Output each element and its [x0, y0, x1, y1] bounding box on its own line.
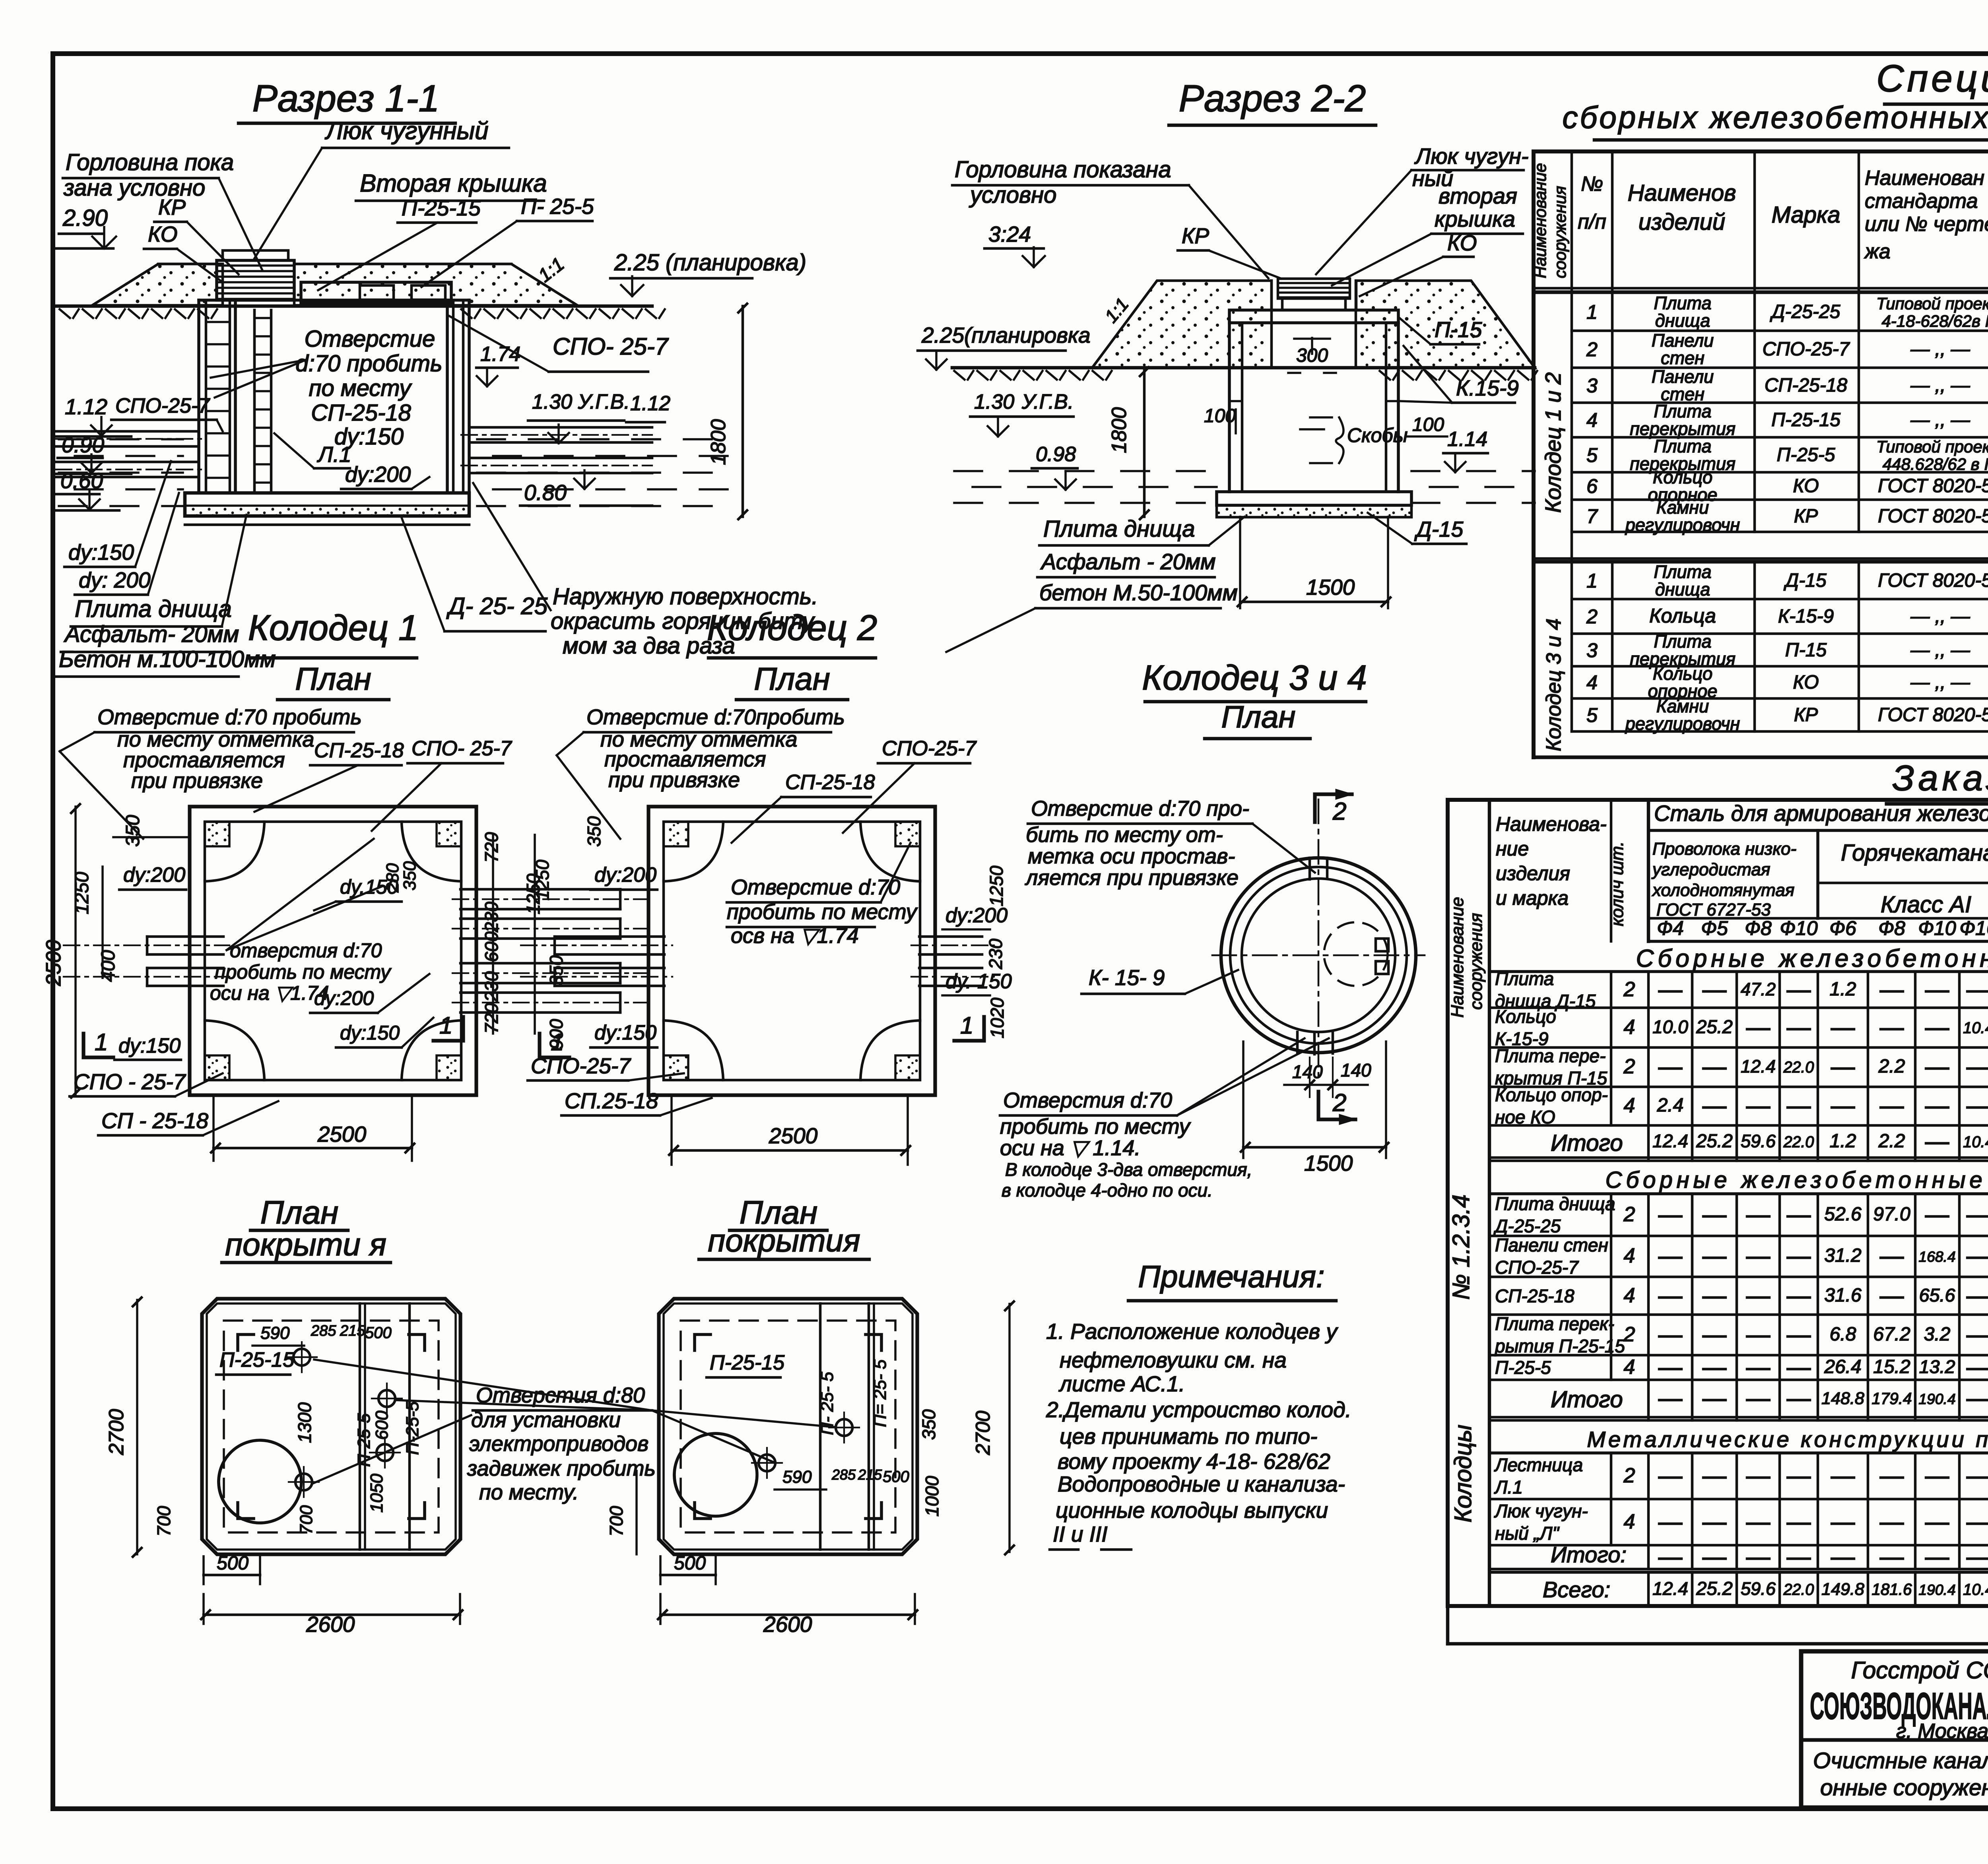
svg-text:Отверстие d:70: Отверстие d:70 [731, 875, 900, 899]
svg-text:7: 7 [1586, 505, 1598, 528]
svg-text:П-25-15: П-25-15 [710, 1351, 785, 1374]
svg-text:140: 140 [1292, 1061, 1323, 1082]
svg-text:2.25(планировка: 2.25(планировка [921, 323, 1091, 347]
svg-text:65.6: 65.6 [1919, 1285, 1955, 1305]
svg-text:1: 1 [1586, 301, 1598, 323]
svg-text:Разрез 2-2: Разрез 2-2 [1179, 78, 1366, 120]
svg-text:1.12: 1.12 [65, 394, 107, 419]
svg-text:цев принимать по типо-: цев принимать по типо- [1060, 1424, 1317, 1449]
svg-text:1020: 1020 [987, 997, 1008, 1038]
svg-text:П-25-5: П-25-5 [1777, 444, 1835, 466]
svg-text:148.8: 148.8 [1821, 1389, 1864, 1408]
svg-text:План: План [295, 661, 371, 696]
svg-text:1: 1 [960, 1012, 973, 1039]
svg-text:Люк чугун-: Люк чугун- [1494, 1501, 1588, 1521]
svg-text:II и III: II и III [1053, 1522, 1108, 1546]
svg-text:Наименование: Наименование [1448, 897, 1467, 1018]
svg-text:Типовой проект: Типовой проект [1876, 437, 1988, 456]
svg-text:Колодец 3 и 4: Колодец 3 и 4 [1542, 619, 1565, 751]
svg-text:П-15: П-15 [1785, 640, 1827, 661]
svg-text:1.2: 1.2 [1830, 979, 1856, 1000]
svg-text:План: План [260, 1195, 338, 1231]
svg-text:1: 1 [95, 1029, 108, 1055]
svg-text:2.25 (планировка): 2.25 (планировка) [614, 250, 806, 275]
svg-text:25.2: 25.2 [1696, 1130, 1733, 1151]
svg-text:10.4: 10.4 [1963, 1133, 1988, 1151]
svg-text:КР: КР [158, 195, 186, 219]
svg-text:5: 5 [1586, 704, 1598, 726]
svg-text:448.628/62 в III: 448.628/62 в III [1883, 455, 1988, 473]
svg-text:Примечания:: Примечания: [1138, 1259, 1324, 1294]
svg-text:25.2: 25.2 [1696, 1578, 1733, 1599]
svg-text:Наименов: Наименов [1628, 180, 1736, 206]
svg-text:метка оси простав-: метка оси простав- [1028, 844, 1235, 868]
svg-text:Вторая крышка: Вторая крышка [360, 170, 547, 197]
svg-text:215: 215 [340, 1323, 365, 1339]
svg-text:оси на ▽ 1.14.: оси на ▽ 1.14. [1000, 1136, 1140, 1160]
svg-text:2500: 2500 [42, 940, 65, 986]
svg-text:5: 5 [1586, 444, 1598, 466]
svg-text:dy:150: dy:150 [118, 1034, 181, 1057]
svg-text:Д-15: Д-15 [1414, 517, 1464, 541]
svg-text:СП-25-18: СП-25-18 [311, 400, 411, 426]
svg-text:0.80: 0.80 [524, 480, 567, 505]
svg-text:КО: КО [1793, 672, 1819, 693]
svg-text:бить по месту от-: бить по месту от- [1026, 823, 1223, 847]
svg-text:285: 285 [831, 1466, 856, 1483]
svg-text:ние: ние [1496, 838, 1529, 860]
svg-text:350: 350 [122, 815, 144, 847]
svg-text:СПО-25-7: СПО-25-7 [882, 737, 977, 760]
svg-text:67.2: 67.2 [1873, 1324, 1910, 1345]
svg-text:№ 1.2.3.4: № 1.2.3.4 [1448, 1195, 1474, 1300]
svg-text:ГОСТ 8020-56: ГОСТ 8020-56 [1878, 704, 1988, 725]
svg-text:dy:150: dy:150 [340, 1022, 400, 1044]
svg-text:Л.1: Л.1 [1494, 1477, 1523, 1497]
svg-text:13.2: 13.2 [1919, 1356, 1955, 1377]
svg-text:Скобы: Скобы [1347, 424, 1408, 446]
svg-text:2.90: 2.90 [62, 205, 108, 231]
svg-text:Итого:: Итого: [1551, 1542, 1627, 1567]
svg-text:3.2: 3.2 [1924, 1324, 1951, 1345]
svg-text:стандарта: стандарта [1865, 190, 1978, 213]
svg-text:1800: 1800 [1108, 407, 1131, 453]
svg-text:онные сооружения: онные сооружения [1820, 1775, 1988, 1800]
svg-text:dy:150: dy:150 [68, 540, 134, 564]
svg-text:600: 600 [372, 1410, 392, 1440]
svg-text:Ф6: Ф6 [1829, 917, 1856, 939]
svg-text:сооружения: сооружения [1551, 186, 1569, 278]
svg-text:П-25-15: П-25-15 [1771, 409, 1840, 431]
svg-text:СП-25-18: СП-25-18 [1495, 1286, 1574, 1306]
svg-text:План: План [1221, 699, 1296, 734]
svg-text:СПО- 25-7: СПО- 25-7 [553, 333, 669, 360]
svg-text:500: 500 [365, 1324, 392, 1342]
svg-text:Наружную поверхность.: Наружную поверхность. [553, 584, 818, 609]
svg-text:1. Расположение колодцев у: 1. Расположение колодцев у [1046, 1319, 1338, 1344]
svg-text:3:24: 3:24 [988, 222, 1031, 246]
svg-text:Всего:: Всего: [1543, 1577, 1610, 1602]
svg-text:31.6: 31.6 [1824, 1285, 1862, 1306]
svg-text:190.4: 190.4 [1918, 1391, 1955, 1407]
svg-text:181.6: 181.6 [1872, 1580, 1912, 1598]
svg-text:СП-25-18: СП-25-18 [314, 739, 404, 762]
svg-text:1.14: 1.14 [1447, 428, 1487, 451]
svg-text:сооружения: сооружения [1466, 913, 1486, 1010]
svg-text:по месту отметка: по месту отметка [117, 727, 314, 751]
svg-text:П-25-15: П-25-15 [402, 196, 481, 220]
svg-text:КР: КР [1182, 223, 1209, 248]
svg-text:1250: 1250 [523, 873, 544, 914]
svg-text:500: 500 [674, 1553, 706, 1574]
svg-text:2600: 2600 [763, 1612, 812, 1637]
svg-text:0.98: 0.98 [1036, 443, 1076, 466]
svg-text:2: 2 [1623, 1464, 1635, 1487]
svg-text:1: 1 [1586, 570, 1598, 592]
svg-text:4: 4 [1624, 1094, 1635, 1117]
svg-text:1: 1 [551, 1029, 564, 1055]
svg-text:52.6: 52.6 [1824, 1204, 1862, 1225]
svg-text:350: 350 [546, 955, 567, 986]
svg-text:1000: 1000 [922, 1476, 942, 1517]
svg-text:Заказ стали: Заказ стали [1892, 758, 1988, 798]
svg-text:10.4: 10.4 [1963, 1019, 1988, 1037]
svg-text:рытия П-25-15: рытия П-25-15 [1494, 1336, 1625, 1356]
svg-text:нефтеловушки см. на: нефтеловушки см. на [1060, 1348, 1287, 1372]
svg-text:1500: 1500 [1304, 1151, 1353, 1175]
svg-text:ГОСТ 8020-56: ГОСТ 8020-56 [1878, 506, 1988, 527]
svg-text:4: 4 [1624, 1016, 1635, 1039]
svg-text:Колодец 1 и 2: Колодец 1 и 2 [1541, 372, 1565, 513]
svg-text:350: 350 [584, 816, 604, 847]
svg-text:2500: 2500 [769, 1123, 818, 1148]
svg-text:К-15-9: К-15-9 [1778, 606, 1834, 627]
svg-text:2: 2 [1623, 1055, 1635, 1078]
svg-text:1.2: 1.2 [1830, 1131, 1856, 1152]
svg-text:Типовой проект: Типовой проект [1876, 294, 1988, 313]
svg-text:230: 230 [481, 902, 502, 933]
svg-text:К.15-9: К.15-9 [1456, 376, 1519, 400]
svg-text:Ф5: Ф5 [1701, 917, 1728, 939]
svg-text:Бетон м.100-100мм: Бетон м.100-100мм [59, 646, 276, 672]
svg-text:ГОСТ 8020-56: ГОСТ 8020-56 [1878, 570, 1988, 591]
svg-text:Сборные железобетонные элеме: Сборные железобетонные элементы по ГОСТ … [1636, 945, 1988, 972]
svg-text:2.2: 2.2 [1878, 1131, 1905, 1152]
svg-text:В колодце 3-два отверстия,: В колодце 3-два отверстия, [1005, 1159, 1252, 1180]
svg-text:Проволока низко-: Проволока низко- [1652, 839, 1796, 859]
svg-text:Отверстие d:70 про-: Отверстие d:70 про- [1031, 797, 1249, 820]
svg-text:Металлические конструкции по: Металлические конструкции по т.п. 4-18-6… [1587, 1427, 1988, 1452]
svg-text:dy:200: dy:200 [123, 863, 185, 886]
svg-text:100: 100 [1412, 414, 1444, 435]
svg-text:1.30: 1.30 [974, 390, 1014, 413]
svg-text:2.2: 2.2 [1878, 1056, 1905, 1077]
svg-text:500: 500 [883, 1468, 909, 1486]
svg-text:проставляется: проставляется [123, 748, 285, 772]
svg-text:и марка: и марка [1496, 887, 1569, 909]
svg-text:К- 15- 9: К- 15- 9 [1089, 965, 1165, 990]
svg-text:Плита днища: Плита днища [75, 595, 232, 622]
svg-text:— ,, —: — ,, — [1910, 606, 1970, 627]
svg-text:Отверстие d:70 пробить: Отверстие d:70 пробить [97, 705, 362, 729]
svg-text:бетон М.50-100мм: бетон М.50-100мм [1039, 580, 1238, 605]
svg-text:пробить по месту: пробить по месту [727, 900, 918, 924]
svg-text:У.Г.В.: У.Г.В. [1021, 390, 1074, 413]
svg-text:в колодце 4-одно по оси.: в колодце 4-одно по оси. [1002, 1180, 1213, 1201]
svg-text:dy:200: dy:200 [945, 904, 1008, 927]
svg-text:электроприводов: электроприводов [469, 1432, 648, 1456]
svg-text:dy:200: dy:200 [594, 863, 656, 886]
svg-text:230: 230 [481, 971, 502, 1002]
svg-text:285: 285 [311, 1323, 336, 1339]
svg-text:углеродистая: углеродистая [1651, 860, 1770, 879]
svg-text:Плита перек-: Плита перек- [1495, 1313, 1614, 1334]
svg-text:2700: 2700 [972, 1411, 994, 1455]
svg-text:12.4: 12.4 [1652, 1578, 1688, 1599]
svg-text:1.74: 1.74 [480, 343, 520, 366]
svg-text:2700: 2700 [105, 1409, 128, 1455]
svg-text:П- 25-5: П- 25-5 [521, 194, 594, 219]
svg-text:покрытия: покрытия [708, 1223, 860, 1258]
svg-text:КО: КО [1793, 475, 1819, 497]
svg-text:Горячекатаная ГОСТ 5781-61: Горячекатаная ГОСТ 5781-61 [1841, 840, 1988, 866]
svg-text:Очистные канализаци-: Очистные канализаци- [1813, 1748, 1988, 1773]
svg-text:П-25-5: П-25-5 [403, 1401, 422, 1455]
svg-text:Спецификация: Спецификация [1876, 57, 1988, 100]
svg-text:№: № [1581, 173, 1603, 196]
svg-text:100: 100 [1204, 405, 1236, 427]
svg-text:г. Москва: г. Москва [1896, 1720, 1988, 1743]
svg-text:при привязке: при привязке [131, 769, 263, 793]
svg-text:Д-15: Д-15 [1783, 570, 1826, 591]
svg-text:вому проекту 4-18- 628/62: вому проекту 4-18- 628/62 [1058, 1449, 1330, 1474]
svg-text:жа: жа [1864, 240, 1891, 263]
svg-text:СПО-25-7: СПО-25-7 [1763, 339, 1850, 360]
svg-text:140: 140 [1341, 1060, 1371, 1080]
svg-text:пробить по месту: пробить по месту [215, 961, 392, 983]
svg-text:179.4: 179.4 [1872, 1389, 1912, 1408]
svg-text:— ,, —: — ,, — [1910, 339, 1970, 360]
svg-text:22.0: 22.0 [1783, 1133, 1814, 1151]
svg-text:590: 590 [782, 1467, 812, 1487]
svg-text:или № черте-: или № черте- [1865, 213, 1988, 236]
svg-text:Горловина пока: Горловина пока [66, 149, 234, 175]
svg-text:стен: стен [1661, 348, 1705, 368]
svg-text:2500: 2500 [317, 1122, 367, 1146]
svg-text:регулировочн: регулировочн [1625, 515, 1740, 535]
svg-text:Ф8: Ф8 [1878, 917, 1905, 939]
svg-text:П-25-5: П-25-5 [1495, 1357, 1551, 1378]
svg-text:6.8: 6.8 [1830, 1324, 1856, 1345]
svg-text:КО: КО [148, 222, 178, 246]
svg-text:230: 230 [985, 939, 1006, 970]
svg-text:Плита пере-: Плита пере- [1495, 1045, 1606, 1066]
svg-text:Марка: Марка [1771, 202, 1840, 228]
svg-text:крышка: крышка [1435, 206, 1515, 231]
svg-text:dy: 200: dy: 200 [79, 568, 151, 592]
svg-text:600: 600 [481, 931, 502, 962]
svg-text:Д-25-25: Д-25-25 [1770, 301, 1840, 322]
svg-text:Колодцы: Колодцы [1450, 1425, 1476, 1523]
svg-text:ГОСТ 6727-53: ГОСТ 6727-53 [1656, 900, 1771, 919]
svg-text:26.4: 26.4 [1824, 1356, 1861, 1377]
svg-text:4: 4 [1624, 1356, 1635, 1379]
svg-text:dy.150: dy.150 [340, 876, 398, 898]
svg-text:— ,, —: — ,, — [1910, 409, 1970, 431]
svg-text:СПО-25-7: СПО-25-7 [1495, 1257, 1579, 1278]
svg-text:4: 4 [1624, 1244, 1635, 1267]
svg-text:СПО- 25-7: СПО- 25-7 [412, 737, 513, 760]
svg-text:500: 500 [217, 1553, 248, 1574]
svg-text:47.2: 47.2 [1741, 979, 1776, 999]
svg-text:Асфальт- 20мм: Асфальт- 20мм [64, 621, 239, 647]
svg-text:dy:200: dy:200 [345, 462, 411, 487]
svg-text:Сталь для армирования железобе: Сталь для армирования железобетонных кон… [1654, 801, 1988, 826]
svg-text:350: 350 [918, 1409, 939, 1440]
svg-text:168.4: 168.4 [1918, 1248, 1955, 1265]
svg-text:Класс АI: Класс АI [1881, 892, 1971, 917]
svg-text:холоднотянутая: холоднотянутая [1652, 881, 1794, 900]
svg-text:Сборные железобетонные элеме: Сборные железобетонные элементы по т.п. … [1606, 1167, 1988, 1193]
svg-text:149.8: 149.8 [1821, 1580, 1864, 1599]
svg-text:План: План [754, 661, 830, 696]
svg-text:при привязке: при привязке [608, 768, 740, 792]
svg-text:Ф8: Ф8 [1745, 917, 1772, 939]
svg-text:Наименован: Наименован [1865, 167, 1984, 190]
svg-text:КР: КР [1794, 704, 1818, 725]
svg-text:пробить по месту: пробить по месту [1000, 1115, 1191, 1139]
svg-text:2.Детали устроиство колод.: 2.Детали устроиство колод. [1046, 1397, 1351, 1422]
svg-text:0.90: 0.90 [62, 433, 104, 457]
svg-text:3: 3 [1586, 639, 1598, 661]
svg-text:Отверстие d:70пробить: Отверстие d:70пробить [586, 705, 845, 729]
svg-text:1250: 1250 [986, 865, 1007, 906]
svg-text:Наименова-: Наименова- [1496, 813, 1607, 835]
svg-text:700: 700 [297, 1505, 316, 1534]
svg-text:22.0: 22.0 [1783, 1059, 1814, 1076]
svg-text:2: 2 [1623, 1323, 1635, 1346]
svg-text:10.4: 10.4 [1963, 1581, 1988, 1598]
svg-text:190.4: 190.4 [1918, 1581, 1955, 1598]
svg-text:СП-25-18: СП-25-18 [785, 771, 875, 794]
svg-text:Д- 25- 25: Д- 25- 25 [446, 593, 548, 619]
svg-text:Д-25-25: Д-25-25 [1493, 1216, 1561, 1236]
svg-text:вторая: вторая [1439, 183, 1517, 208]
svg-text:Итого: Итого [1551, 1387, 1623, 1412]
svg-text:ляется при привязке: ляется при привязке [1025, 866, 1239, 890]
svg-text:Плита днища: Плита днища [1495, 1193, 1615, 1214]
svg-text:215: 215 [858, 1466, 882, 1483]
svg-text:СПО - 25-7: СПО - 25-7 [74, 1069, 186, 1094]
svg-text:П-25-15: П-25-15 [219, 1348, 295, 1371]
svg-text:Водопроводные и канализа-: Водопроводные и канализа- [1058, 1472, 1345, 1496]
svg-text:Ф10: Ф10 [1918, 917, 1956, 939]
svg-text:по месту.: по месту. [479, 1480, 579, 1504]
svg-text:для установки: для установки [471, 1408, 621, 1432]
svg-text:Панели стен: Панели стен [1495, 1235, 1608, 1255]
svg-text:1300: 1300 [294, 1402, 315, 1443]
svg-text:ный „Л": ный „Л" [1495, 1523, 1560, 1544]
svg-text:Разрез 1-1: Разрез 1-1 [252, 78, 440, 120]
svg-text:15.2: 15.2 [1873, 1356, 1910, 1377]
svg-text:1250: 1250 [72, 872, 93, 914]
svg-text:4-18-628/62в III: 4-18-628/62в III [1881, 312, 1988, 330]
svg-text:покрыти я: покрыти я [225, 1227, 386, 1262]
svg-text:1500: 1500 [1306, 575, 1355, 599]
svg-text:изделий: изделий [1639, 209, 1725, 235]
svg-text:59.6: 59.6 [1741, 1579, 1776, 1599]
svg-text:700: 700 [153, 1506, 174, 1536]
svg-text:ное КО: ное КО [1495, 1107, 1555, 1127]
svg-text:2600: 2600 [306, 1612, 355, 1637]
svg-text:Колодец 2: Колодец 2 [707, 608, 877, 648]
svg-text:4: 4 [1624, 1284, 1635, 1307]
svg-text:Колодец 3 и 4: Колодец 3 и 4 [1142, 658, 1367, 697]
svg-text:Госстрой СССР: Госстрой СССР [1851, 1657, 1988, 1684]
svg-text:— ,, —: — ,, — [1910, 375, 1970, 396]
svg-text:СПО-25-7: СПО-25-7 [115, 394, 210, 417]
svg-text:Отверстие: Отверстие [305, 326, 435, 352]
svg-text:59.6: 59.6 [1741, 1131, 1776, 1151]
svg-text:Колодец 1: Колодец 1 [248, 608, 418, 648]
svg-text:Горловина показана: Горловина показана [955, 157, 1171, 182]
svg-text:СП-25-18: СП-25-18 [1765, 375, 1848, 396]
svg-text:6: 6 [1586, 475, 1598, 497]
svg-text:регулировочн: регулировочн [1625, 714, 1740, 734]
svg-text:Ф10: Ф10 [1780, 917, 1818, 939]
svg-text:СП - 25-18: СП - 25-18 [101, 1108, 209, 1133]
svg-text:Люк чугун-: Люк чугун- [1414, 144, 1529, 169]
svg-text:dy:200: dy:200 [314, 987, 374, 1009]
svg-text:проставляется: проставляется [604, 747, 766, 771]
svg-text:колич шт.: колич шт. [1607, 842, 1627, 926]
svg-text:— ,, —: — ,, — [1910, 672, 1970, 693]
svg-text:350: 350 [400, 861, 419, 890]
svg-text:Ф16: Ф16 [1959, 917, 1988, 939]
svg-text:днища: днища [1655, 579, 1710, 599]
svg-text:изделия: изделия [1496, 862, 1570, 884]
svg-text:97.0: 97.0 [1873, 1204, 1910, 1225]
svg-text:оси на ▽1.74: оси на ▽1.74 [210, 982, 329, 1004]
svg-text:задвижек пробить: задвижек пробить [467, 1457, 656, 1480]
svg-text:Лестница: Лестница [1494, 1455, 1583, 1475]
svg-text:Кольцо: Кольцо [1495, 1006, 1556, 1027]
svg-text:Плита днища: Плита днища [1043, 516, 1195, 542]
svg-text:720: 720 [481, 832, 502, 863]
svg-text:листе АС.1.: листе АС.1. [1058, 1371, 1185, 1396]
svg-text:2: 2 [1623, 978, 1635, 1001]
svg-text:2: 2 [1586, 338, 1598, 361]
svg-text:ГОСТ 8020-56: ГОСТ 8020-56 [1878, 475, 1988, 497]
svg-text:d:70 пробить: d:70 пробить [295, 351, 442, 376]
svg-text:25.2: 25.2 [1696, 1016, 1733, 1037]
svg-text:2: 2 [1623, 1203, 1635, 1226]
svg-text:СП.25-18: СП.25-18 [565, 1088, 658, 1113]
svg-text:сборных железобетонных и бетон: сборных железобетонных и бетонных элемен… [1562, 100, 1988, 135]
svg-text:22.0: 22.0 [1783, 1581, 1814, 1598]
svg-text:1800: 1800 [707, 419, 730, 465]
svg-text:КО: КО [1447, 231, 1477, 255]
svg-text:1.12: 1.12 [630, 392, 670, 415]
svg-text:П= 25- 5: П= 25- 5 [870, 1359, 890, 1427]
svg-text:2.4: 2.4 [1657, 1095, 1684, 1116]
svg-text:Плита: Плита [1495, 968, 1554, 989]
svg-text:590: 590 [260, 1323, 290, 1343]
svg-text:720: 720 [481, 1003, 502, 1034]
svg-text:1: 1 [439, 1012, 452, 1039]
svg-text:31.2: 31.2 [1824, 1245, 1861, 1266]
svg-text:п/п: п/п [1578, 210, 1606, 233]
